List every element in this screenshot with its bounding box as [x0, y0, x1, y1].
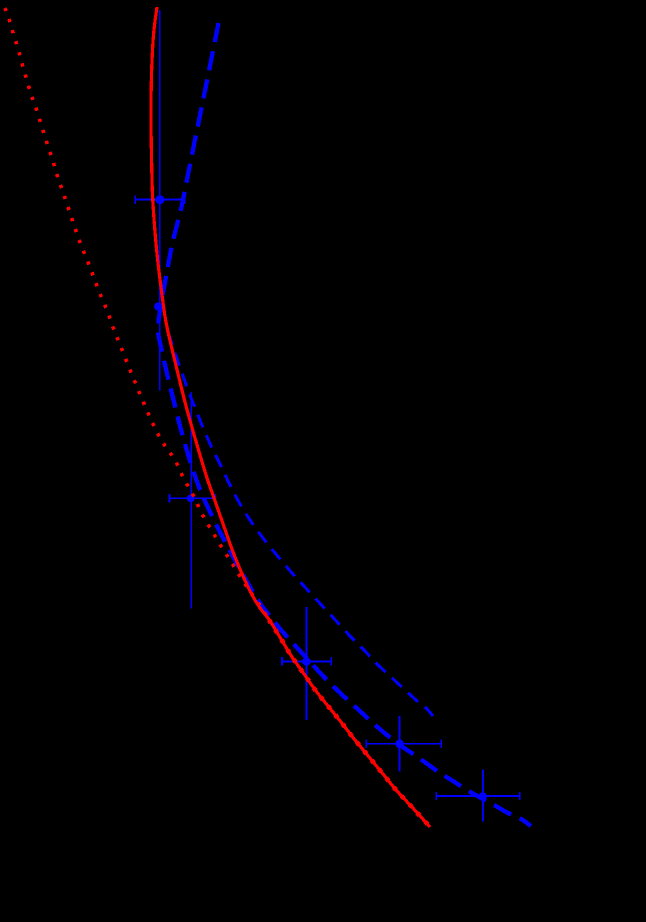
- data point P1 marker: [155, 195, 164, 204]
- data point P4 error bars: [282, 607, 331, 720]
- blue thick long-dashed curve C: [158, 23, 531, 826]
- data point P5 marker: [395, 740, 404, 749]
- blue thin dashed curve D: [168, 332, 433, 716]
- red dotted curve overlay on solid branch: [269, 620, 430, 827]
- data point P6 error bars: [436, 770, 520, 822]
- data point P3 error bars: [170, 392, 216, 609]
- red dotted curve: [5, 8, 269, 620]
- vertical error bar P1/P2: [159, 10, 161, 391]
- data point P2 marker: [154, 302, 162, 310]
- data point P3 marker: [187, 494, 195, 502]
- data point P5 error bars: [366, 716, 441, 771]
- data point P1 error bars: [135, 10, 184, 391]
- red solid curve: [151, 7, 430, 827]
- horizontal error bar P1: [135, 199, 184, 201]
- data point P6 marker: [479, 792, 487, 800]
- data point P4 marker: [302, 657, 311, 666]
